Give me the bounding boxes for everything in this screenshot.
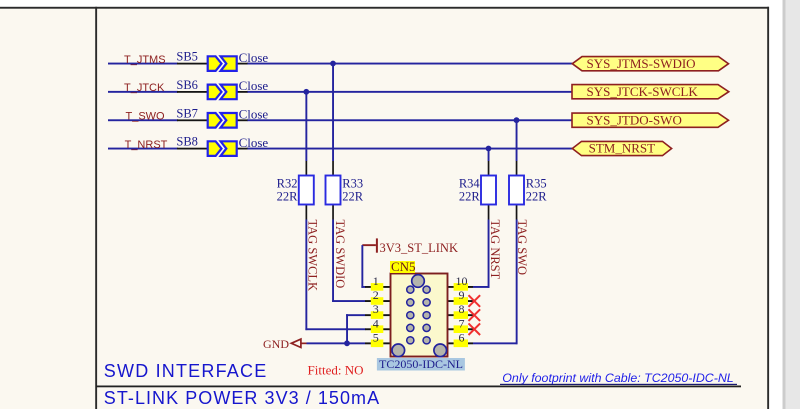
pin highlight masks left — [371, 283, 384, 291]
pin stub SB7 right — [237, 119, 248, 121]
svg-text:2: 2 — [373, 288, 379, 302]
svg-text:T_SWO: T_SWO — [126, 111, 166, 123]
solder bridge SB8 — [208, 141, 237, 156]
svg-text:Close: Close — [239, 78, 269, 93]
wire pin3 to GND net — [346, 314, 365, 316]
wire T_NRST row — [108, 148, 178, 150]
svg-text:8: 8 — [459, 302, 465, 316]
svg-text:SWD INTERFACE: SWD INTERFACE — [104, 361, 268, 381]
svg-text:SB8: SB8 — [176, 135, 198, 149]
pin stub SB8 right — [237, 148, 248, 150]
port SYS_JTCK-SWCLK — [572, 85, 729, 99]
wire 3V3 down to pin1 — [361, 245, 363, 288]
solder bridge SB5 — [208, 56, 237, 71]
pin stub R32 bottom — [306, 205, 308, 220]
wire vertical net NRST to R34 — [488, 149, 490, 162]
wire R33 down to pin2 — [332, 220, 334, 302]
junction on GND net — [344, 340, 350, 346]
svg-text:T_JTMS: T_JTMS — [124, 54, 166, 66]
svg-text:5: 5 — [373, 330, 379, 344]
pin stub SB5 left — [177, 63, 208, 65]
connector alignment hole bottom-left — [392, 344, 405, 357]
footprint label TC2050-IDC-NL — [377, 358, 465, 371]
svg-text:TAG SWDIO: TAG SWDIO — [333, 220, 347, 289]
svg-text:T_NRST: T_NRST — [125, 139, 168, 151]
pin stub SB8 left — [177, 148, 208, 150]
connector alignment hole top — [412, 275, 425, 288]
pin stub SB6 right — [237, 91, 248, 93]
pin stub R34 top — [488, 161, 490, 176]
svg-text:4: 4 — [373, 316, 379, 330]
wire T_SWO row — [108, 119, 178, 121]
svg-text:SB7: SB7 — [176, 106, 198, 120]
svg-text:22R: 22R — [459, 190, 481, 204]
pin highlight masks right — [454, 283, 468, 291]
svg-text:3V3_ST_LINK: 3V3_ST_LINK — [380, 241, 458, 255]
designator CN5 — [390, 261, 415, 273]
junction on T_SWO row — [514, 117, 520, 123]
connector CN5 pin stubs left — [365, 286, 391, 288]
svg-text:SYS_JTDO-SWO: SYS_JTDO-SWO — [587, 112, 682, 127]
port SYS_JTDO-SWO — [572, 113, 729, 127]
pin stub R34 bottom — [488, 205, 490, 220]
svg-text:SB5: SB5 — [176, 50, 198, 64]
svg-text:22R: 22R — [277, 190, 299, 204]
svg-text:SB6: SB6 — [176, 78, 198, 92]
junction on T_NRST row — [486, 146, 492, 152]
svg-text:1: 1 — [373, 274, 379, 288]
svg-text:TAG SWCLK: TAG SWCLK — [306, 220, 320, 292]
wire vertical net JTMS to R33 — [332, 64, 334, 162]
no-connect X pin 7 — [469, 323, 481, 335]
power 3V3_ST_LINK bar — [376, 238, 378, 252]
pin stub R33 bottom — [332, 205, 334, 220]
junction on T_JTCK row — [303, 89, 309, 95]
pin stub R35 bottom — [516, 205, 518, 220]
solder bridge SB7 — [208, 113, 237, 128]
wire R32 down to pin4 — [305, 220, 307, 331]
wire R35 down to pin6 — [516, 220, 518, 345]
junction on T_JTMS row — [330, 61, 336, 67]
sheet right border line — [767, 7, 769, 409]
resistor R33 — [326, 176, 341, 205]
svg-text:Close: Close — [239, 50, 269, 65]
resistor R35 — [509, 176, 524, 205]
sheet top border line — [0, 7, 769, 9]
svg-text:Close: Close — [239, 107, 269, 122]
wire vertical net SWO to R35 — [516, 120, 518, 161]
right gray strip — [783, 0, 800, 409]
svg-text:SYS_JTCK-SWCLK: SYS_JTCK-SWCLK — [587, 84, 699, 99]
svg-text:R35: R35 — [526, 176, 547, 190]
svg-text:R33: R33 — [342, 176, 363, 190]
svg-text:10: 10 — [456, 274, 468, 288]
svg-text:TAG NRST: TAG NRST — [488, 220, 502, 280]
pin numbers right — [456, 274, 468, 344]
port STM_NRST — [572, 141, 671, 155]
solder bridge SB6 — [208, 85, 237, 100]
connector alignment hole bottom-right — [434, 344, 447, 357]
wire GND to pin5 — [307, 342, 366, 344]
pin stub R33 top — [332, 161, 334, 176]
svg-text:R34: R34 — [459, 176, 481, 190]
no-connect X pin 9 — [469, 295, 481, 307]
connector CN5 pin stubs right — [448, 286, 474, 288]
svg-text:ST-LINK POWER 3V3 / 150mA: ST-LINK POWER 3V3 / 150mA — [104, 388, 380, 408]
connector CN5 body — [391, 274, 448, 357]
pin numbers left — [373, 274, 379, 344]
svg-text:R32: R32 — [277, 176, 298, 190]
section divider line — [96, 386, 741, 388]
svg-text:SYS_JTMS-SWDIO: SYS_JTMS-SWDIO — [587, 56, 696, 71]
svg-text:22R: 22R — [342, 190, 364, 204]
svg-text:Close: Close — [239, 135, 269, 150]
svg-text:9: 9 — [459, 288, 465, 302]
resistor R34 — [481, 176, 496, 205]
svg-text:3: 3 — [373, 302, 379, 316]
svg-text:CN5: CN5 — [391, 259, 416, 274]
svg-text:T_JTCK: T_JTCK — [124, 82, 165, 94]
pin stub SB6 left — [177, 91, 208, 93]
resistor R32 — [299, 176, 314, 205]
svg-text:GND: GND — [263, 337, 289, 351]
pin stub SB7 left — [177, 119, 208, 121]
pin stub R35 top — [516, 161, 518, 176]
wire R34 down to pin10 — [488, 220, 490, 288]
svg-text:6: 6 — [459, 330, 465, 344]
pin stub R32 top — [306, 161, 308, 176]
ground symbol GND — [291, 339, 301, 347]
pin stub SB5 right — [237, 63, 248, 65]
svg-text:TC2050-IDC-NL: TC2050-IDC-NL — [379, 357, 463, 371]
svg-text:Fitted: NO: Fitted: NO — [308, 363, 364, 378]
svg-text:STM_NRST: STM_NRST — [589, 141, 656, 156]
svg-text:22R: 22R — [526, 190, 548, 204]
svg-text:TAG SWO: TAG SWO — [515, 220, 529, 276]
no-connect X pin 8 — [469, 309, 481, 321]
sheet left inner border line — [95, 7, 97, 409]
wire vertical net JTCK to R32 — [305, 92, 307, 161]
svg-text:7: 7 — [459, 316, 465, 330]
connector contact pads — [407, 286, 431, 344]
wire T_JTMS row — [108, 63, 178, 65]
wire T_JTCK row — [108, 91, 178, 93]
svg-text:Only footprint with Cable: TC2: Only footprint with Cable: TC2050-IDC-NL — [502, 371, 733, 385]
port SYS_JTMS-SWDIO — [572, 57, 728, 71]
